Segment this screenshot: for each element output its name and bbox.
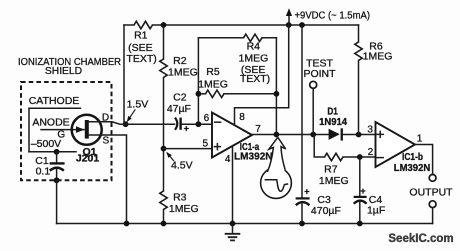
svg-text:+9VDC (~ 1.5mA): +9VDC (~ 1.5mA) — [295, 11, 371, 22]
wire D1 cathode to pin 3 — [343, 134, 376, 136]
svg-text:LM392N: LM392N — [234, 151, 273, 163]
power +9VDC arrow — [286, 8, 292, 25]
svg-text:0.1: 0.1 — [36, 166, 51, 178]
node rail R3 junction — [161, 221, 167, 227]
svg-text:LM392N: LM392N — [394, 162, 431, 174]
svg-text:R7: R7 — [324, 163, 338, 175]
svg-text:C2: C2 — [173, 91, 187, 103]
ground symbol — [226, 224, 240, 241]
wire C3 to ground rail — [301, 203, 303, 224]
svg-text:SeekIC.com: SeekIC.com — [388, 233, 453, 245]
node pin6 junction — [196, 121, 202, 127]
chamber -500V line — [29, 151, 76, 153]
svg-text:2: 2 — [368, 147, 374, 158]
svg-text:R4: R4 — [247, 41, 261, 53]
wire left vertical R1 to drain node — [124, 25, 126, 124]
svg-text:1MEG: 1MEG — [169, 203, 199, 215]
svg-text:J201: J201 — [76, 153, 100, 165]
feedback riser pin6 to R4 box — [197, 38, 199, 124]
wire R7 riser — [314, 135, 324, 158]
svg-text:+: + — [360, 186, 365, 196]
test point terminal — [310, 81, 317, 88]
divider vertical wire R2/R3 — [163, 25, 165, 59]
svg-text:1N914: 1N914 — [319, 117, 347, 128]
svg-text:G: G — [57, 129, 65, 140]
node junction C3 top — [299, 22, 305, 28]
ground rail — [57, 223, 433, 225]
resistor R6 — [355, 25, 362, 135]
waveform balloon callout — [261, 137, 292, 198]
svg-text:5: 5 — [203, 139, 209, 150]
diode D1 1N914 — [329, 128, 343, 140]
svg-text:4.5V: 4.5V — [171, 160, 193, 172]
wire IC1-b output — [415, 145, 433, 175]
svg-text:CATHODE: CATHODE — [29, 95, 80, 107]
wire C4 riser — [359, 157, 361, 196]
svg-text:4: 4 — [225, 154, 231, 165]
node rail C3 junction — [299, 221, 305, 227]
wire source lead to ground rail — [89, 135, 127, 224]
svg-text:1µF: 1µF — [367, 205, 385, 217]
svg-text:1MEG: 1MEG — [239, 53, 269, 65]
wire drain lead — [89, 122, 126, 124]
svg-text:7: 7 — [255, 124, 261, 135]
chamber cathode plate — [29, 107, 81, 109]
svg-text:1MEG: 1MEG — [168, 66, 198, 78]
svg-text:47µF: 47µF — [167, 103, 191, 115]
node output/feedback junction — [274, 132, 280, 138]
svg-text:R1: R1 — [134, 30, 148, 42]
wire +9V to C3 — [301, 25, 303, 197]
capacitor C2 — [175, 118, 181, 130]
op-amp IC1-b plus sign — [377, 131, 383, 137]
transistor Q1 J201 JFET — [72, 115, 102, 145]
wire R4 box top right — [262, 37, 276, 39]
svg-text:R2: R2 — [173, 55, 187, 67]
wire C2 to pin 6 — [182, 123, 212, 125]
svg-text:SHIELD: SHIELD — [45, 66, 82, 77]
resistor R1 — [134, 21, 153, 28]
node R5 right junction — [274, 91, 280, 97]
wire pin 8 to +9V — [235, 25, 289, 125]
svg-text:1: 1 — [417, 133, 423, 144]
node junction R2 top — [161, 22, 167, 28]
wire 4.5V arrow — [166, 152, 173, 161]
svg-text:R3: R3 — [173, 191, 187, 203]
node shield ground junction — [54, 177, 60, 183]
op-amp U1b IC1-b — [376, 122, 416, 167]
wire R4 box right edge — [275, 38, 277, 135]
svg-text:OUTPUT: OUTPUT — [409, 187, 453, 199]
svg-text:R5: R5 — [206, 66, 220, 78]
node test point junction — [310, 132, 316, 138]
node 4.5V junction — [161, 146, 167, 152]
svg-text:1MEG: 1MEG — [319, 175, 349, 187]
svg-text:S: S — [102, 135, 109, 146]
wire signal drain node to C2 — [126, 123, 175, 125]
resistor R5 — [206, 90, 225, 97]
node pin 3 junction — [356, 132, 362, 138]
wire test point — [312, 88, 314, 134]
wire output terminal to ground rail — [432, 208, 434, 224]
node rail pin4 junction — [230, 221, 236, 227]
svg-text:6: 6 — [204, 113, 210, 124]
wire pin 5 — [164, 148, 213, 150]
node R5 left junction — [196, 91, 202, 97]
svg-text:1MEG: 1MEG — [198, 79, 228, 91]
resistor R7 — [325, 153, 344, 160]
wire R2 to 4.5V node — [163, 78, 165, 192]
node pin 2 junction — [357, 154, 363, 160]
wire R3 to ground rail — [163, 210, 165, 224]
svg-text:TEXT): TEXT) — [240, 73, 270, 85]
wire R5 right — [224, 93, 276, 95]
shield dashed box — [21, 82, 112, 180]
svg-text:+: + — [184, 124, 189, 134]
wire R7 to pin 2 — [343, 156, 376, 158]
output terminal bottom — [429, 201, 436, 208]
op-amp U1a IC1-a — [212, 113, 252, 158]
op-amp IC1-a plus sign — [214, 144, 220, 150]
wire top rail — [153, 24, 359, 26]
capacitor C1 — [50, 163, 65, 170]
svg-text:TEXT): TEXT) — [126, 53, 156, 65]
resistor R3 — [160, 191, 167, 210]
svg-text:+: + — [304, 186, 309, 196]
wire R4 box top left — [198, 37, 243, 39]
node drain 1.5V junction — [123, 121, 129, 127]
output terminal top — [429, 175, 436, 182]
chamber cathode side wire — [28, 108, 30, 152]
node rail C4 junction — [357, 221, 363, 227]
svg-text:3: 3 — [367, 124, 373, 135]
wire pin 4 to ground — [232, 146, 234, 223]
wire R5 left — [198, 93, 205, 95]
resistor R2 — [160, 59, 167, 78]
svg-text:1.5V: 1.5V — [127, 98, 149, 110]
svg-text:8: 8 — [239, 112, 245, 123]
capacitor C3 — [296, 198, 310, 205]
wire anode / gate lead — [41, 129, 84, 131]
wire C1 top lead — [56, 152, 58, 162]
wire IC1-a output — [252, 134, 329, 136]
op-amp IC1-a minus sign — [215, 121, 221, 123]
svg-text:ANODE: ANODE — [32, 116, 69, 128]
wire C1 bottom lead — [56, 168, 58, 180]
node rail source junction — [124, 221, 130, 227]
svg-text:POINT: POINT — [303, 68, 336, 80]
op-amp IC1-b minus sign — [377, 157, 383, 159]
wire C4 to ground rail — [359, 201, 361, 223]
wire shield to ground rail — [56, 180, 58, 223]
capacitor C4 — [354, 197, 367, 204]
wire top rail left segment — [124, 24, 134, 26]
svg-text:1MEG: 1MEG — [363, 50, 393, 62]
svg-text:470µF: 470µF — [311, 205, 341, 217]
resistor R4 — [244, 34, 263, 41]
wire 1.5V arrow — [127, 110, 135, 122]
svg-text:D1: D1 — [327, 106, 338, 117]
node junction +9V arrow — [286, 22, 292, 28]
node C1 tap junction — [54, 149, 60, 155]
